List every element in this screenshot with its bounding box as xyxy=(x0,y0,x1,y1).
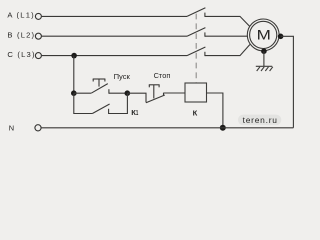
mechanical linkage (dashed) xyxy=(195,14,197,83)
terminal C (L3) xyxy=(7,50,41,59)
contactor main contact K.3 (phase C) xyxy=(187,47,205,56)
wire: N bus xyxy=(41,127,293,129)
wire: phase A contact to motor xyxy=(205,16,250,26)
wire: phase B terminal to contact xyxy=(42,35,187,37)
wire: right node to stop button xyxy=(127,93,146,102)
node: control branch left xyxy=(71,90,77,96)
wire: phase B contact to motor xyxy=(205,35,248,37)
node: tap on phase C xyxy=(71,53,77,59)
node: motor neutral tap xyxy=(278,34,284,40)
svg-text:B (L2): B (L2) xyxy=(7,31,35,40)
wire: phase C contact to motor xyxy=(205,45,250,56)
wire: control drop from phase C xyxy=(73,56,75,94)
motor M1 xyxy=(247,19,279,51)
coil K xyxy=(185,83,207,118)
svg-text:Стоп: Стоп xyxy=(154,71,171,80)
wire: coil to N bus xyxy=(207,93,223,128)
svg-text:C (L3): C (L3) xyxy=(7,50,35,59)
contactor main contact K.1 (phase A) xyxy=(187,8,205,17)
terminal N xyxy=(9,124,41,133)
wire: motor to ground xyxy=(263,51,265,66)
wire: K1 branch left drop xyxy=(74,93,93,113)
node: junction on N bus xyxy=(220,125,226,131)
watermark teren.ru xyxy=(238,115,281,126)
wire: stop button to coil xyxy=(164,92,186,94)
terminal B (L2) xyxy=(7,31,41,40)
pushbutton SB1 "Стоп" (stop, NC) xyxy=(146,71,170,103)
svg-text:N: N xyxy=(9,124,14,133)
wire: start button to right node xyxy=(109,92,127,94)
wire: phase C terminal to contact xyxy=(42,55,187,57)
svg-text:Пуск: Пуск xyxy=(114,72,131,81)
pushbutton SB2 "Пуск" (start, NO) xyxy=(91,72,130,94)
auxiliary contact K1 (NO) xyxy=(92,104,138,117)
ground xyxy=(256,66,273,71)
svg-text:M: M xyxy=(257,27,271,42)
terminal A (L1) xyxy=(7,11,41,20)
wire: left node to start button xyxy=(74,92,91,94)
node: motor earth tap xyxy=(261,48,267,54)
node: control branch right xyxy=(125,90,131,96)
svg-text:A (L1): A (L1) xyxy=(7,11,34,20)
svg-text:1: 1 xyxy=(136,110,138,117)
contactor main contact K.2 (phase B) xyxy=(187,28,205,37)
wire: K1 branch right riser xyxy=(109,93,128,113)
wire: phase A terminal to contact xyxy=(42,15,187,17)
svg-text:teren.ru: teren.ru xyxy=(243,115,278,125)
wire: motor to N bus (right side) xyxy=(281,36,294,128)
svg-text:К: К xyxy=(193,109,198,118)
